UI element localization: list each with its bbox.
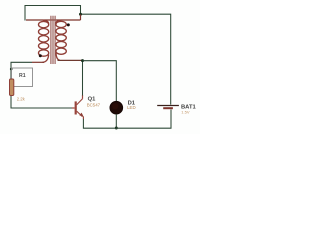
wire base <box>72 107 75 109</box>
wire collector up to node <box>82 60 84 95</box>
wire node to LED branch <box>83 61 117 102</box>
svg-text:1.5V: 1.5V <box>181 109 190 114</box>
wire left branch to R1 <box>11 62 32 79</box>
transistor Q1 emitter arrowhead <box>79 113 84 117</box>
wire top-left rectangle loop <box>25 6 81 21</box>
wire emitter to bottom rail <box>83 110 171 129</box>
node collector junction <box>81 59 84 62</box>
resistor R1 label box <box>12 68 33 87</box>
transformer polarity dot left <box>39 54 42 57</box>
LED D1 <box>110 101 123 114</box>
svg-text:2.2k: 2.2k <box>17 97 26 102</box>
resistor R1 body <box>10 79 14 96</box>
svg-text:BC547: BC547 <box>87 102 101 107</box>
node LED bottom junction <box>115 127 118 130</box>
wire LED to bottom rail <box>115 114 117 128</box>
transformer core <box>51 16 55 64</box>
battery BAT1 plates <box>157 105 179 107</box>
node on R1 box corner <box>10 68 13 71</box>
wire top rail to battery <box>81 14 171 104</box>
wire R1 bottom to base <box>11 95 72 108</box>
svg-text:R1: R1 <box>19 73 26 79</box>
transformer polarity dot right <box>67 23 70 26</box>
transistor Q1 <box>76 95 84 119</box>
transformer TR top bar <box>26 15 81 21</box>
transformer bottom-left bar <box>32 61 44 63</box>
transformer left winding <box>39 20 49 62</box>
transformer right winding <box>56 20 66 60</box>
node top junction <box>79 13 82 16</box>
transformer bottom-right bar <box>58 59 83 61</box>
svg-text:LED: LED <box>127 105 136 110</box>
